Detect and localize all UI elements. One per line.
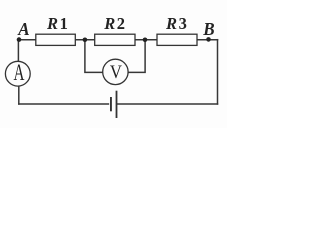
voltmeter U2 circle <box>103 59 128 84</box>
battery BT1 short plate <box>110 97 112 111</box>
svg-text:A: A <box>14 61 25 86</box>
svg-text:R2: R2 <box>103 14 126 33</box>
wire R1 to R2 <box>75 39 94 41</box>
svg-text:R1: R1 <box>46 14 69 33</box>
svg-text:A: A <box>17 19 29 40</box>
battery BT1 long plate <box>116 91 118 118</box>
wire R2 to R3 <box>135 39 157 41</box>
wire right vertical <box>217 40 219 104</box>
svg-text:V: V <box>110 61 122 82</box>
wire voltmeter right drop <box>128 40 145 73</box>
junction dot between R1 and R2 <box>83 38 88 43</box>
wire voltmeter left drop <box>85 40 103 73</box>
resistor R3 <box>157 34 197 45</box>
wire left vertical below ammeter <box>18 86 20 104</box>
junction dot between R2 and R3 <box>143 38 148 43</box>
wire bottom right to battery <box>118 103 218 105</box>
wire left vertical above ammeter <box>17 40 19 62</box>
ammeter U1 circle <box>5 61 30 86</box>
svg-text:R3: R3 <box>165 14 188 33</box>
node B junction dot <box>206 37 211 42</box>
wire battery to bottom left corner <box>19 103 109 105</box>
node A junction dot <box>17 37 22 42</box>
resistor R2 <box>95 34 135 45</box>
resistor R1 <box>36 34 76 45</box>
wire R3 to top-right corner <box>197 39 218 41</box>
wire node A to R1 <box>18 39 35 41</box>
svg-text:B: B <box>202 18 215 39</box>
